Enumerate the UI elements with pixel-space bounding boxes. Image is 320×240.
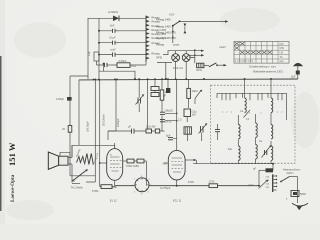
svg-text:µF: µF [128, 125, 131, 129]
variable cap C18 arrows [262, 145, 272, 157]
switch S5 mains lever [280, 177, 297, 183]
svg-text:0,05µF: 0,05µF [119, 59, 128, 63]
label 9+750uF [160, 186, 171, 190]
wire tube V1 cathode bottom [114, 180, 116, 186]
label TA 2 Welle [71, 185, 84, 189]
capacitor C5 [105, 63, 112, 67]
svg-text:4,5V: 4,5V [169, 13, 175, 17]
wire vertical x194.8 to RFG [194, 49, 196, 63]
wire plate feed to tube V1 [72, 145, 115, 157]
potentiometer arrow P1 [248, 180, 268, 189]
resistor R1 on y131 [146, 129, 152, 133]
coil L7 [271, 112, 273, 139]
label Tr [73, 179, 75, 183]
inner coil frame top [217, 93, 287, 120]
wire rung y=65 [97, 64, 147, 66]
wire mains rail x273 [272, 164, 274, 192]
svg-text:Heizf.: Heizf. [220, 45, 227, 49]
label PCD 1/4 [173, 66, 183, 70]
switch S3 feedback arm [72, 169, 88, 181]
svg-text:2µF: 2µF [291, 75, 296, 79]
wire links to mid rail [165, 113, 177, 138]
svg-text:5µF: 5µF [166, 134, 171, 138]
selector tap labels [266, 176, 270, 189]
wire top rail y=18 [88, 18, 146, 79]
svg-text:Rewag 1465: Rewag 1465 [156, 18, 171, 22]
svg-text:RFG: RFG [197, 68, 202, 72]
svg-text:µmax: µmax [173, 43, 180, 46]
capacitor C13 box 0,3u [184, 109, 197, 122]
IF can dashed box [211, 85, 296, 163]
coil L3 [245, 79, 247, 112]
band switch S1 arm [172, 20, 181, 26]
resistor box RFG [197, 63, 204, 72]
tube V1 UCL11 envelope [107, 149, 123, 181]
speaker LS cone [48, 152, 58, 169]
speaker driver box [59, 156, 68, 165]
coil L4 [271, 79, 273, 112]
label Netzanschluss [283, 167, 301, 175]
svg-text:µF/m: µF/m [248, 183, 254, 187]
svg-text:Schalterstellung v. vorn: Schalterstellung v. vorn [249, 65, 276, 69]
svg-text:+µW: +µW [110, 48, 116, 52]
svg-text:0,1µF: 0,1µF [109, 36, 116, 40]
main bus y=78.7 [70, 76, 298, 80]
wire comb bottom to rung [145, 62, 147, 65]
diode D1 em960 [113, 16, 119, 22]
svg-text:µF: µF [163, 94, 166, 98]
tube V2 internals [172, 158, 183, 172]
label 4x50uF rotated [116, 118, 120, 127]
label EL12 [110, 199, 117, 203]
svg-text:10kΩ: 10kΩ [192, 89, 198, 93]
svg-text:970Ω 1983: 970Ω 1983 [126, 164, 139, 168]
svg-text:Rewag 1465: Rewag 1465 [156, 25, 171, 29]
socket SK1 pin numbers [132, 176, 153, 196]
svg-text:Loewe-Opta: Loewe-Opta [10, 174, 16, 202]
socket SK1 [135, 178, 149, 192]
wire lamps down to bus [176, 62, 187, 80]
variable capacitor C15 [199, 123, 208, 141]
resistor box AGL [117, 59, 137, 68]
resistor R5 series [126, 159, 147, 168]
svg-text:AGL: AGL [131, 64, 137, 68]
dial lamp LP1 [172, 51, 180, 62]
capacitor C20 5000 box [286, 191, 306, 201]
wire rail x99.7 lower [99, 163, 101, 187]
label em960/2 [108, 10, 119, 14]
capacitor C17 in box [215, 124, 220, 140]
svg-text:1kΩ 4W: 1kΩ 4W [146, 125, 156, 129]
resistor R9 on left rail [62, 126, 72, 133]
antenna coupling cap C6 [296, 71, 300, 75]
wire rung y=71.2 [99, 71, 136, 80]
coil L10 [271, 141, 273, 164]
trimmer boxes group [151, 78, 159, 96]
svg-text:PCD 1/4: PCD 1/4 [173, 66, 183, 70]
svg-text:220V~: 220V~ [286, 171, 295, 175]
wire tube V2 anode right [185, 159, 197, 164]
electrolytic can C4 [94, 52, 99, 65]
label C3 [110, 48, 116, 52]
output transformer T1 primary winding [77, 157, 85, 163]
capacitor C3 [113, 53, 120, 57]
resistor R7 10k [187, 79, 198, 108]
svg-text:5700: 5700 [188, 180, 194, 184]
wire inner box bottom y=163.7 [193, 163, 274, 165]
coil small labels [228, 119, 263, 151]
trimmer arrow Ca [240, 109, 250, 118]
wire lamp top rail y=50 with arrow [163, 50, 204, 55]
switch contacts arrows [184, 24, 187, 34]
coil frame drops [222, 93, 282, 100]
label Heizf [220, 45, 227, 49]
variable capacitor C8 with arrow [136, 78, 145, 112]
band list text rows [156, 18, 180, 47]
wire x99 down from ladder to bus [98, 65, 100, 79]
svg-text:20V,2kmA: 20V,2kmA [102, 114, 106, 126]
svg-text:LW: LW [280, 52, 284, 55]
svg-text:Tr: Tr [73, 179, 75, 183]
wire tube V2 grid left [164, 162, 168, 164]
wire rung y=54.6 [99, 54, 146, 56]
label C2 [109, 36, 116, 40]
svg-text:1kV: 1kV [192, 113, 197, 117]
svg-text:9+750µF: 9+750µF [160, 186, 171, 190]
wire rail x147.6 [93, 78, 149, 129]
wire stub x103 [103, 63, 105, 72]
capacitor C2 [113, 41, 120, 45]
svg-text:570Ω: 570Ω [92, 189, 98, 193]
svg-text:5000: 5000 [300, 192, 306, 196]
label 1,5 umax [178, 118, 182, 122]
coil L6 [256, 114, 258, 137]
wire rail x94 [86, 79, 100, 183]
wire rail x161.5 [161, 79, 163, 131]
dial lamp LP2 [182, 51, 190, 62]
label antenna [253, 70, 296, 79]
capacitor C10 [160, 109, 173, 115]
svg-text:Mittelwellenantenne 230/1: Mittelwellenantenne 230/1 [253, 70, 284, 74]
label RFB [157, 56, 162, 60]
switch S2 mains [204, 63, 227, 67]
wire rung y=30.8 [99, 30, 146, 32]
resistor R4 series [123, 159, 134, 163]
capacitor C14 box Dia [184, 127, 191, 141]
svg-text:10kΩ/2: 10kΩ/2 [165, 109, 174, 113]
tube V1 internals [110, 154, 121, 172]
svg-text:MW: MW [280, 47, 285, 50]
svg-text:KW: KW [280, 43, 285, 46]
mains plug arrow ground [292, 203, 308, 210]
wire rail x176.7 mid [176, 79, 178, 150]
svg-text:1700: 1700 [209, 180, 215, 184]
label A20 [163, 162, 168, 166]
label ECL11 [173, 199, 182, 203]
wire mid line y=131 [108, 130, 165, 132]
electrolytic C12 on bus [163, 78, 170, 97]
coil tap labels [152, 16, 167, 56]
svg-text:5nF: 5nF [110, 24, 115, 28]
label C4 [87, 51, 91, 56]
bottom bus y=185.7 [72, 184, 259, 186]
capacitor C16 pair [166, 134, 173, 140]
wire lamp mid rail y=55.3 with arrow [190, 54, 204, 56]
svg-text:1,5: 1,5 [178, 118, 182, 122]
capacitor C9 on y131 [128, 125, 139, 134]
label C1 [110, 24, 115, 28]
switch S4 arrow [195, 90, 202, 104]
antenna A1 [293, 63, 303, 79]
resistor R2 on y131 [146, 125, 160, 133]
title text Loewe-Opta [10, 174, 16, 202]
wire x259 drop [258, 170, 260, 186]
svg-text:2x0,05µF: 2x0,05µF [86, 121, 90, 132]
resistor R3 cathode 250 [92, 185, 117, 193]
capacitor C11 [160, 120, 172, 124]
page binding edge line [0, 56, 2, 211]
svg-text:TA: TA [280, 56, 283, 59]
wire lamp bottoms to bus [157, 58, 195, 80]
svg-text:Rewag: Rewag [152, 51, 161, 55]
label bottom V1 wire [188, 180, 194, 184]
wire x146.5 drop to bottom bus [146, 161, 148, 186]
svg-text:ECL 11: ECL 11 [173, 199, 182, 203]
tube V2 ECL11 envelope [168, 150, 185, 180]
svg-text:0,05µF: 0,05µF [56, 97, 65, 101]
wire ladder left rail x=99 [98, 18, 100, 65]
wire tube V1 grid left [99, 162, 107, 164]
svg-text:Netzanschluss: Netzanschluss [283, 167, 301, 171]
svg-text:151 W: 151 W [7, 142, 17, 166]
svg-text:1 2 3 4 5 6 7 8 9: 1 2 3 4 5 6 7 8 9 [235, 60, 254, 63]
label 4,5V [169, 13, 175, 17]
label 2x0,05uF rotated [86, 121, 90, 132]
capacitor C7 block 0.05uF [56, 97, 72, 101]
electrolytic C19 block [253, 167, 273, 173]
label under table [249, 65, 276, 69]
svg-text:TA 2.Welle: TA 2.Welle [71, 185, 84, 189]
svg-text:RFB: RFB [157, 56, 162, 60]
switch table grid [234, 41, 289, 63]
svg-text:µF25: µF25 [166, 120, 173, 124]
resistor R8 1700 [209, 180, 218, 188]
table row labels [235, 43, 285, 63]
wire band bus x172.8 [172, 26, 174, 43]
junction dots ladder [98, 30, 100, 56]
svg-text:5µF: 5µF [228, 149, 233, 151]
title text 151 W [7, 142, 17, 166]
label T1 secondary rotated [91, 152, 99, 166]
label 20V 2kmA rotated [102, 114, 106, 126]
svg-text:A20: A20 [163, 162, 168, 166]
capacitor C1 [113, 29, 120, 33]
wire inner rail x79 [78, 80, 80, 145]
wire rung y=42.7 [99, 42, 146, 44]
svg-text:em960/2: em960/2 [108, 10, 119, 14]
svg-text:Rewag: Rewag [156, 42, 165, 46]
wire heater feed y=21.5 with arrow [180, 20, 228, 23]
svg-text:EL 12: EL 12 [110, 199, 117, 203]
output transformer T1 secondary winding [85, 154, 94, 165]
svg-text:Ca: Ca [240, 109, 244, 113]
tuning coil L1 tapped comb [146, 16, 150, 63]
svg-text:4x50µF: 4x50µF [116, 118, 120, 127]
resistor R6 [160, 90, 170, 100]
voltage selector taps [273, 175, 278, 193]
coil L8 [238, 140, 240, 164]
wire tube V2 cathode bottom [176, 180, 178, 187]
svg-text:12µ: 12µ [87, 51, 91, 56]
wire rail x116 [115, 79, 117, 131]
wire mains right rail x297.5 [297, 177, 299, 204]
wire left rail x70 [60, 76, 95, 176]
wire speaker leads [68, 145, 72, 183]
left edge shadow [0, 0, 5, 224]
label T1 primary rotated [75, 148, 82, 157]
svg-text:µF: µF [253, 167, 256, 171]
coil L5 [238, 115, 240, 139]
coil L9 [256, 138, 258, 164]
coil labels italic [222, 110, 283, 115]
wire tube V1 anode top [114, 143, 116, 149]
junction dots on bus [98, 78, 272, 81]
wire x108 drop [108, 131, 116, 140]
table X marks [235, 42, 272, 54]
